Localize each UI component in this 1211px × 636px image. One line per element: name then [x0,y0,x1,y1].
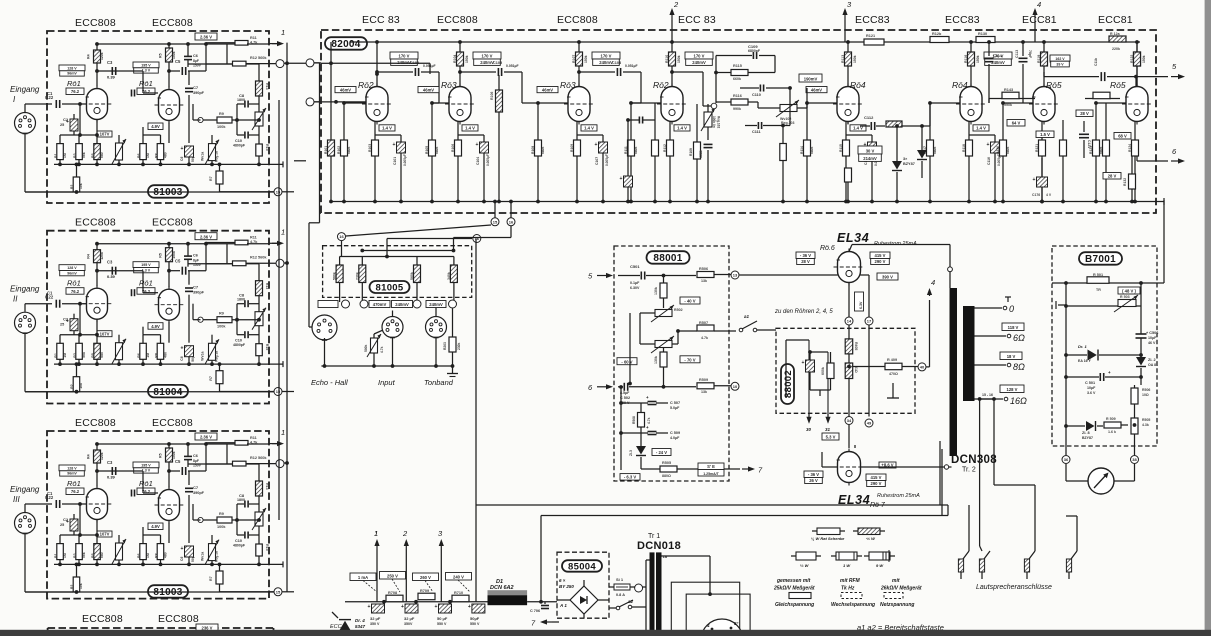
svg-text:Ruhestrom 25mA: Ruhestrom 25mA [877,493,920,499]
svg-text:480: 480 [163,552,167,558]
svg-text:R502: R502 [674,308,683,312]
svg-text:40: 40 [920,365,925,370]
speaker terminal 3 [980,397,1035,579]
svg-text:Tk Hz: Tk Hz [841,586,855,592]
svg-text:30: 30 [806,427,812,432]
resistor R116 [716,94,758,111]
svg-text:C6: C6 [180,557,184,561]
diode Dr4 [330,612,366,634]
svg-text:Tr. 2: Tr. 2 [962,467,976,474]
svg-text:2.36 V: 2.36 V [200,435,212,440]
svg-text:R3: R3 [73,553,77,558]
label Rö 2 stage1 [358,80,374,90]
label Rö 5 stage7 [1046,80,1062,90]
svg-text:350V: 350V [404,622,413,626]
capacitor C112 [860,115,885,130]
svg-text:4 V: 4 V [1046,193,1052,197]
arrow net 6 [1171,147,1185,164]
svg-text:C6: C6 [193,254,198,258]
resistor R128 mid [1085,92,1120,99]
resistor top R131 [1109,32,1126,51]
svg-text:0.39: 0.39 [107,475,116,480]
voltage label grid stage2 [418,87,439,93]
svg-text:Rö1: Rö1 [67,479,81,488]
tap 16ohm [975,385,1028,406]
svg-text:150V: 150V [193,464,202,468]
svg-text:R6: R6 [137,353,141,358]
capacitor coupling stage2 [458,61,522,76]
capacitor C6 electrolytic (preamp 1) [180,146,195,166]
wire bridge leads [557,580,609,618]
label Tonband [424,378,454,387]
svg-text:C6: C6 [193,54,198,58]
svg-text:1800: 1800 [237,298,245,302]
capacitor C122 [1079,121,1091,158]
svg-text:0.051µF: 0.051µF [625,64,638,68]
wire enclosure inner [541,505,948,602]
svg-text:88001: 88001 [653,253,682,264]
wire input to grid (preamp 3) [62,502,87,506]
svg-text:16: 16 [509,219,514,224]
svg-text:Zl.3: Zl.3 [629,450,633,456]
terminal circle a2t [635,584,643,592]
label Ruhestrom upper [874,241,917,247]
svg-text:C105: C105 [493,61,502,65]
svg-text:30 V: 30 V [866,149,875,154]
svg-text:ECC 83: ECC 83 [362,14,400,26]
resistor R509 [697,378,731,394]
wire grid stage2 [432,102,449,104]
wire link lower [338,225,492,257]
oval part number 81003 (preamp 3) [148,585,188,598]
resistor R1 (preamp 2) [54,335,67,366]
svg-text:2: 2 [673,0,679,9]
svg-text:470Ω: 470Ω [889,372,898,376]
supply arrow net 3b [438,529,444,602]
arrow net 7 left [531,619,552,628]
resistor R1 (preamp 3) [54,535,67,566]
svg-text:R121: R121 [866,34,875,38]
resistor R4 plate (preamp 3) [87,444,105,487]
svg-text:16: 16 [475,236,480,241]
label Rö1 a (preamp 3) [66,479,84,495]
svg-text:150k: 150k [584,55,588,63]
resistor R5 plate (preamp 2) [159,244,177,288]
potentiometer Wv2 (preamp 1) [252,108,266,130]
resistor top R122 [930,32,949,43]
svg-text:C111: C111 [752,130,761,134]
diode Zl3 [620,446,646,480]
connector Tonband socket [426,317,447,338]
svg-text:560k: 560k [258,56,267,60]
legend text wechselspannung [831,602,875,608]
svg-text:150k: 150k [172,51,176,59]
wire tr1 left lead [646,560,650,630]
svg-text:S' E: S' E [707,464,715,469]
resistor R304 [447,257,458,303]
voltage label 195V/1.3V (preamp 1) [133,62,159,73]
resistor grid stage8 [1089,101,1103,203]
svg-text:ECC808: ECC808 [158,613,199,625]
svg-text:+: + [368,604,371,610]
wire plate1 coupling (preamp 1) [95,69,158,93]
svg-text:4800pF: 4800pF [233,144,246,148]
switch a2 [609,599,646,610]
svg-text:R12b: R12b [932,32,942,36]
voltage label plate stage6 [984,52,1012,65]
dashed enclosure box 81005 [323,246,472,298]
svg-text:6 ×: 6 × [559,578,566,583]
resistor cathode stage3 [570,122,581,204]
svg-text:R506: R506 [1142,388,1150,392]
wire grid stage8 [1096,102,1126,104]
wire long vertical left [475,239,477,602]
svg-text:R9: R9 [219,312,224,316]
svg-text:+: + [181,146,184,152]
svg-text:Zl. 8: Zl. 8 [1082,431,1090,435]
capacitor C105 bottom [620,118,633,203]
resistor R7 below bus (preamp 2) [209,362,274,391]
capacitor C10 (preamp 2) [233,320,259,348]
wire output 5 [1136,77,1168,87]
voltage label -36V Ro6 [796,252,815,265]
wire stage1 input [314,100,366,104]
wire screen Ro7 up [854,445,856,448]
svg-text:R6: R6 [137,153,141,158]
resistor grid stage5 [800,101,814,203]
svg-text:C 507: C 507 [670,401,680,405]
svg-text:25: 25 [60,323,64,327]
svg-text:Wechselspannung: Wechselspannung [831,602,875,608]
wire 88002 inner [810,390,831,396]
wire input bottom drop (preamp 3) [25,534,73,592]
wire plate2 out (preamp 3) [167,469,180,473]
capacitor C506 elco [1136,330,1159,355]
voltage label stage5 cathode [858,146,882,161]
speaker terminal 1 [958,505,969,579]
capacitor C8 (preamp 3) [235,493,259,522]
resistor R5 plate (preamp 1) [159,44,177,88]
label Rö 2 stage4 [653,80,669,90]
svg-text:Eingang: Eingang [10,485,40,494]
svg-text:1: 1 [281,428,285,437]
svg-text:Reg.1a: Reg.1a [215,351,219,362]
svg-text:+: + [595,142,598,148]
capacitor C4 grid2 (preamp 1) [132,90,135,97]
svg-text:150k: 150k [465,55,469,63]
wire 81005 rail B [360,249,455,253]
svg-text:32 µF: 32 µF [370,616,381,621]
potentiometer P1 (preamp 3) [112,535,126,566]
svg-text:R101: R101 [324,146,328,154]
voltage label -70V [680,356,700,363]
label ECC808 stage 2 [437,14,478,26]
capacitor coupling stage3 [577,61,641,76]
wire plate2 out (preamp 1) [167,69,180,73]
svg-text:R505: R505 [662,461,671,465]
svg-text:50µ: 50µ [191,156,195,162]
svg-text:195 V: 195 V [141,63,151,67]
svg-text:15: 15 [493,219,498,224]
resistor R7 below bus (preamp 3) [209,563,274,592]
capacitor C701 elco [368,604,385,626]
resistor R709 [414,589,435,604]
svg-text:560k: 560k [258,456,267,460]
svg-text:415 V: 415 V [875,253,886,258]
svg-text:128 V: 128 V [67,66,77,70]
capacitor C7 (preamp 2) [185,271,205,343]
svg-text:C3: C3 [107,60,113,65]
legend box gleich [789,593,811,599]
resistor R9 (preamp 3) [203,512,261,529]
oval part number 81005 [370,281,410,293]
wire tr1 right top [662,556,712,596]
resistor R5k (preamp 3) [91,535,104,566]
wire horizontal t2 [284,261,289,265]
svg-text:1.25mA/T: 1.25mA/T [703,472,719,476]
svg-text:220k: 220k [1112,47,1120,51]
resistor R132 below [1123,156,1136,203]
svg-text:C10: C10 [235,339,242,343]
svg-text:10k: 10k [79,183,83,189]
svg-text:0.005µF: 0.005µF [605,154,609,166]
svg-text:1800: 1800 [237,498,245,502]
label Rö 5 stage8 [1110,80,1126,90]
svg-text:Rö.6: Rö.6 [820,245,835,252]
triode V1a (Rö1) (preamp 3) [83,486,112,523]
svg-text:R 503: R 503 [1120,295,1130,299]
dashed enclosure box 88001 [614,246,729,481]
wire g rail [661,274,696,278]
resistor R106 mid [490,75,503,203]
svg-text:R102: R102 [337,146,341,154]
wire 88001 low rails [619,385,648,470]
svg-text:128 V: 128 V [1007,387,1018,392]
wire plate1 coupling (preamp 2) [95,269,158,293]
label Rö1 a (preamp 2) [66,279,84,295]
svg-text:470mV: 470mV [373,302,387,307]
svg-text:DCN 6A2: DCN 6A2 [490,585,514,591]
capacitor C1 (preamp 3) [45,491,60,508]
svg-text:R506: R506 [699,267,708,271]
wire meter right [1114,464,1135,481]
svg-text:+: + [393,142,396,148]
svg-text:1M: 1M [63,553,67,558]
svg-text:- 70 V: - 70 V [684,357,695,362]
voltage label plate stage3 [592,52,620,65]
svg-text:R 409: R 409 [887,358,897,362]
svg-text:56k: 56k [82,552,86,558]
resistor R505b [641,461,698,478]
triode V1b (Rö1) (preamp 3) [155,487,184,524]
svg-text:390pF: 390pF [193,291,205,295]
terminal circle 15 [491,200,499,226]
label EL34 lower [838,493,870,507]
svg-text:46mV: 46mV [542,87,553,92]
capacitor C6 elco (preamp 2) [184,242,202,267]
svg-text:+: + [1108,370,1111,375]
svg-text:390pF: 390pF [193,91,205,95]
svg-text:R106: R106 [490,92,494,100]
svg-text:128 V: 128 V [67,266,77,270]
svg-text:10µF: 10µF [1087,386,1096,390]
wire vertical bus B [278,100,280,520]
bridge rectifier A1 [559,586,598,614]
svg-text:Dr. 1: Dr. 1 [1078,344,1087,349]
resistor grid stage7 [996,101,1010,203]
svg-text:85004: 85004 [568,561,596,572]
svg-text:162 V: 162 V [1055,57,1065,61]
svg-text:214mV: 214mV [863,156,877,161]
dashed enclosure box B7001 [1052,246,1157,446]
supply arrow net 2b [402,529,409,602]
potentiometer input pot [364,330,384,368]
svg-text:880Ω: 880Ω [662,474,671,478]
svg-text:ECC: ECC [330,624,342,630]
svg-text:0.22: 0.22 [45,95,54,100]
svg-text:- 60 V: - 60 V [621,359,632,364]
svg-text:64 V: 64 V [1012,121,1021,126]
wire top bus (preamp 3) [95,442,247,446]
capacitor C8 (preamp 1) [235,93,259,122]
svg-text:50µ: 50µ [191,356,195,362]
svg-text:1: 1 [281,28,285,37]
svg-text:R2: R2 [70,384,74,388]
svg-text:R7: R7 [209,376,213,381]
terminal circle bottom (preamp 2) [274,388,282,396]
svg-text:Rö2: Rö2 [358,80,374,90]
transformer Tr1 bar A [650,552,655,636]
wire grid1 bias (preamp 1) [60,104,99,137]
svg-text:II: II [13,295,18,304]
resistor R13 (preamp 2) [256,281,270,296]
svg-text:150k: 150k [172,251,176,259]
label ECC808 stage 3 [557,14,598,26]
wire t1 into amp box [314,62,321,64]
svg-text:C107: C107 [595,157,599,165]
svg-text:¼ W Rat Schenke: ¼ W Rat Schenke [811,536,845,541]
voltage label cathode stage6 [973,125,989,131]
voltage label 6.8V [1007,120,1025,127]
svg-text:230k: 230k [355,272,359,280]
potentiometer Wv102 [758,100,807,125]
label D1 DCN6A2 [490,579,514,591]
svg-text:14: 14 [847,319,852,324]
legend box wechsel [841,593,862,599]
resistor cathode stage4 [663,122,674,204]
svg-text:R12: R12 [250,456,257,460]
svg-text:195 V: 195 V [141,463,151,467]
wire plate Ro7 [861,465,952,469]
svg-text:Rö1: Rö1 [139,79,153,88]
svg-text:68 V: 68 V [1118,134,1127,139]
svg-text:76.2: 76.2 [71,89,80,94]
svg-text:R115: R115 [733,64,742,68]
resistor cathode stage2 [451,122,462,204]
svg-text:15 - 16: 15 - 16 [982,393,993,397]
capacitor C704 elco [468,604,485,626]
svg-text:96mV: 96mV [67,271,77,275]
svg-text:C5: C5 [175,459,181,464]
label Rö 3 stage2 [441,80,457,90]
label a1a2 Bereitschaftstaste [857,623,944,632]
svg-text:1: 1 [374,529,378,538]
svg-text:1M: 1M [146,153,150,158]
wire tone node [714,56,775,104]
label Rö 4 stage6 [952,80,968,90]
svg-text:1M: 1M [63,353,67,358]
svg-text:R2: R2 [70,185,74,189]
svg-text:0.8 A: 0.8 A [616,593,625,597]
resistor R9 (preamp 2) [203,312,261,329]
potentiometer Wv1 (preamp 2) [201,335,220,366]
wire input top (preamp 1) [25,104,52,112]
resistor R8 (preamp 1) [154,135,167,166]
resistor R116 plate stage6 [964,40,980,86]
tap 8ohm [975,352,1026,372]
dashed enclosure box 81003 (preamp 3) [47,431,269,599]
wire feedback rail (preamp 1) [257,64,261,166]
svg-text:4800pF: 4800pF [233,544,246,548]
svg-text:290 V: 290 V [875,259,886,264]
resistor R3 (preamp 1) [73,135,86,166]
terminal circle 16 [507,200,515,226]
svg-text:Rö1: Rö1 [139,479,153,488]
transformer Tr2 core bar [963,306,975,401]
label ECC808 left (preamp 3) [75,417,116,429]
resistor R11 (preamp 1) [206,36,269,45]
label Rö1 b (preamp 1) [137,79,155,95]
node circle R9 (preamp 1) [198,117,203,122]
svg-text:R13: R13 [265,83,269,90]
wire tr2 drop A [941,449,943,516]
resistor R3 (preamp 2) [73,335,86,366]
wire grid Ro7 [822,452,838,467]
capacitor C2 electrolytic (preamp 1) [60,114,78,135]
svg-text:R8: R8 [154,153,158,158]
supply arrow net 4 [1032,0,1041,42]
resistor R122 plate stage8 [1130,40,1146,86]
svg-text:Eingang: Eingang [10,285,40,294]
wire echo feed [309,63,320,327]
resistor grid stage4 [624,101,638,203]
resistor R2 below (preamp 2) [70,362,83,392]
terminal circle 49 [865,419,873,427]
wire cath2 row (preamp 1) [143,123,169,144]
resistor grid stage1 [337,101,351,203]
wire B7001 top rail [1157,200,1164,283]
svg-text:0.39: 0.39 [107,274,116,279]
svg-text:C 501: C 501 [1085,381,1095,385]
svg-text:13k: 13k [701,390,707,394]
svg-text:100k lin: 100k lin [712,116,716,128]
svg-text:6800pF: 6800pF [748,49,761,53]
resistor R110 plate stage4 [665,40,681,86]
wire 88002 top links [786,340,828,398]
svg-text:Rö1: Rö1 [139,279,153,288]
svg-text:+ C506: + C506 [1146,331,1158,335]
svg-text:10µF: 10µF [1148,336,1157,340]
svg-text:6Ω: 6Ω [1013,333,1025,343]
voltage label 107V (preamp 1) [97,131,112,137]
resistor R12 (preamp 3) [233,456,277,466]
svg-text:TR: TR [1096,288,1101,292]
capacitor C3 (preamp 3) [107,460,116,480]
label ECC808 right (preamp 3) [152,417,193,429]
resistor grid stage6 [923,101,937,203]
svg-text:+: + [401,604,404,610]
svg-text:R509: R509 [699,378,708,382]
